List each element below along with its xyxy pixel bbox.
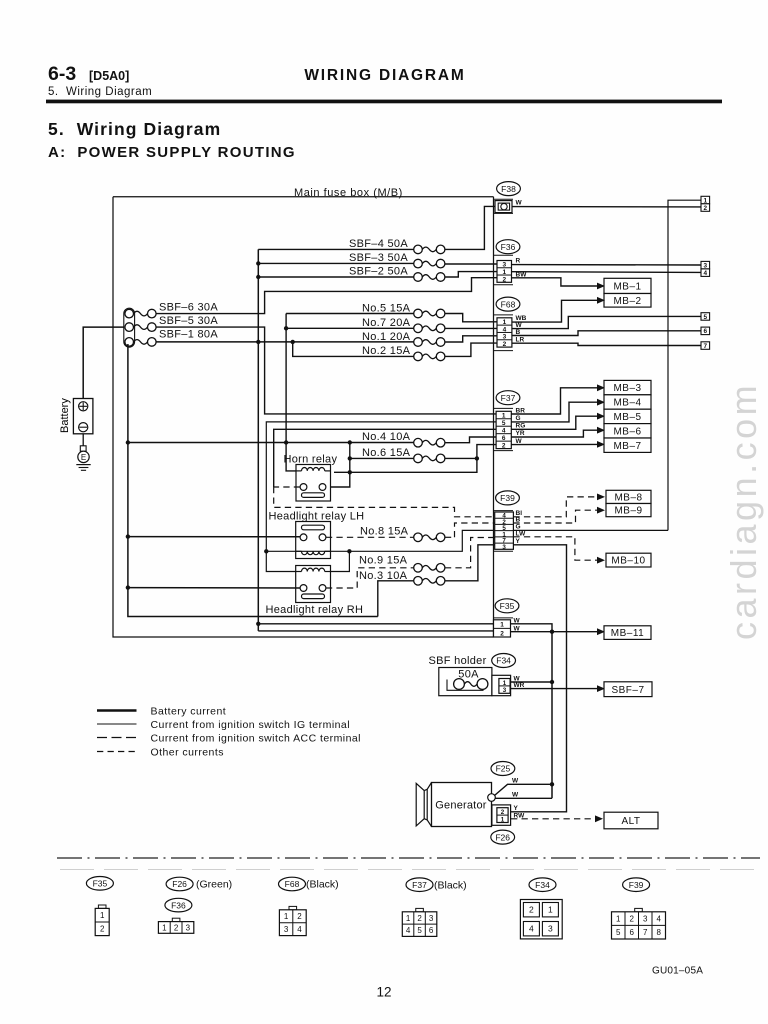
terminal 2 [701,204,710,212]
svg-text:No.9 15A: No.9 15A [359,555,408,567]
svg-text:F36: F36 [171,900,186,910]
svg-text:1: 1 [548,905,553,915]
svg-text:R: R [516,257,521,264]
svg-text:W: W [516,200,523,207]
box MB-3 [604,380,651,394]
connector F39 [496,491,520,505]
wire F38 W to terminal 2 [512,206,701,208]
svg-text:8: 8 [657,928,662,937]
svg-text:A: POWER SUPPLY ROUTING: A: POWER SUPPLY ROUTING [48,144,296,161]
svg-text:1: 1 [616,915,621,924]
fuse No.6 15A [414,454,423,463]
headlight relay LH coil [302,551,325,554]
svg-text:B: B [516,516,521,523]
connector F68 [496,297,520,311]
legend IG terminal current [97,723,137,725]
svg-text:W: W [514,618,521,625]
svg-text:F35: F35 [93,879,108,889]
svg-text:2: 2 [704,205,708,212]
svg-text:4: 4 [406,926,411,935]
svg-text:7: 7 [643,928,648,937]
wire bus A to F35 pin1 [258,623,496,625]
wire SBF-3 row to F36 pin3 [258,262,413,264]
pinout F68 (Black) [279,877,306,891]
svg-text:MB–10: MB–10 [611,556,645,567]
svg-text:F39: F39 [500,493,515,503]
main fuse box outline [113,196,494,198]
wire bus A to F35 pin2 [258,630,496,632]
svg-text:12: 12 [376,985,391,1000]
svg-text:3: 3 [503,334,507,341]
svg-text:G: G [516,415,521,422]
box MB-2 [604,294,651,308]
svg-text:W: W [514,625,521,632]
wire No.6 output down to horn coil lead [334,458,477,472]
svg-text:Headlight relay RH: Headlight relay RH [266,604,364,616]
svg-text:4: 4 [704,270,708,277]
horn relay contact terminals [300,484,307,491]
svg-text:3: 3 [186,923,191,932]
svg-text:SBF–2 50A: SBF–2 50A [349,265,408,277]
svg-text:W: W [516,438,523,445]
svg-text:3: 3 [429,914,434,923]
generator pulley [416,783,424,826]
svg-text:6: 6 [704,328,708,335]
horn relay U-box [296,465,331,502]
horn relay coil [302,467,325,470]
svg-text:(Green): (Green) [196,879,232,891]
svg-text:[D5A0]: [D5A0] [89,69,129,83]
svg-text:B: B [516,329,521,336]
wire SBF holder W to battery riser [511,681,552,683]
svg-text:3: 3 [502,544,506,551]
svg-text:5: 5 [704,314,708,321]
wire No.3 output to F39 pin3 [445,545,495,581]
svg-text:LW: LW [516,530,527,537]
svg-text:MB–11: MB–11 [611,628,644,639]
ground E from battery minus [82,434,84,446]
pinout F39 [623,878,650,892]
wire No.2 output to F68 pin2 [445,343,497,356]
wire No.7 feed [286,327,414,329]
svg-text:No.6 15A: No.6 15A [362,447,411,459]
header rule [46,100,722,104]
generator box [432,783,492,827]
junction holder W to riser [550,680,554,684]
wire F68 pin3 B to terminal 6 [512,331,701,336]
F34 connector [492,675,511,695]
junction No.6 output [475,456,479,460]
box ALT [604,812,658,829]
fuse SBF 50A [454,679,465,690]
wire No.5 feed from vertical C [286,313,414,315]
fuse No.8 15A [414,533,423,542]
wire horn relay branch vertical x=349.8 [326,443,350,488]
svg-text:F26: F26 [172,879,187,889]
pinout F36 [165,898,192,912]
svg-text:WR: WR [514,682,525,689]
svg-text:(Black): (Black) [306,879,339,891]
svg-text:2: 2 [417,914,422,923]
wire F37 pin6 YR to MB-6 [511,430,597,437]
wire battery riser to generator [551,632,553,799]
connector F34 oval [492,654,516,668]
wire SBF-5 output down to F37 pin1 [156,327,496,414]
svg-text:F39: F39 [629,880,644,890]
svg-text:No.3 10A: No.3 10A [359,570,408,582]
svg-text:YR: YR [516,430,525,437]
box MB-1 [604,278,651,293]
svg-text:6: 6 [502,435,506,442]
svg-text:2: 2 [630,915,635,924]
junction battery bus to headlight relay RH contact [126,585,130,589]
svg-text:3: 3 [284,925,289,934]
svg-text:1: 1 [503,319,507,326]
svg-text:F68: F68 [501,299,516,309]
fuse No.5 15A [414,309,423,318]
wire F35 pin2 W to MB-11 [511,631,598,633]
page break dash-dot line [57,857,760,859]
svg-text:2: 2 [174,923,179,932]
connector F25 oval [491,762,515,776]
wire battery bus vertical x=128 [128,344,378,617]
junction F35 wires [550,630,554,634]
wire IG riser to terminal 1 [668,200,701,530]
svg-text:1: 1 [406,914,411,923]
wire No.4/No.6 feed bus y=442.5 [128,442,414,444]
svg-text:4: 4 [657,915,662,924]
fuse No.7 20A [414,324,423,333]
wire vertical C No.5/No.7 feed down to horn relay coil [286,314,296,471]
fuse No.1 20A [414,338,423,347]
svg-text:5: 5 [502,420,506,427]
wire F37 pin2 W to MB-7 [511,443,597,445]
fuse SBF-5 30A [125,323,134,332]
junction C at No.4 bus [284,440,288,444]
svg-text:F68: F68 [285,879,300,889]
svg-text:(Black): (Black) [434,879,467,891]
box SBF-7 [604,682,652,697]
box MB-10 [606,553,651,567]
svg-text:1: 1 [503,680,507,687]
svg-text:MB–6: MB–6 [613,426,641,437]
svg-text:MB–9: MB–9 [614,506,642,517]
svg-text:2: 2 [502,442,506,449]
svg-text:Battery: Battery [59,398,71,433]
svg-text:W: W [512,791,519,798]
svg-text:Other currents: Other currents [151,747,224,759]
wire F39 Y down to generator F26 [508,545,567,812]
wire coil net to F39 pin5 (G) [296,530,495,551]
svg-text:SBF–5 30A: SBF–5 30A [159,315,218,327]
headlight relay RH contact terminals [300,585,307,592]
wire battery bus to LH contact [128,536,300,538]
wire F68 pin1 WB to MB-2 [512,300,597,322]
svg-text:F38: F38 [501,184,516,194]
junction SBF-1 to No.2 branch [291,340,295,344]
wire G-net vertical x=266.3 (F37 pin5 to coils) [266,422,496,572]
svg-text:No.1 20A: No.1 20A [362,331,411,343]
svg-text:RW: RW [514,813,526,820]
wire SBF holder WR to SBF-7 [511,688,597,690]
svg-text:2: 2 [503,341,507,348]
wire No.4 output to F37 pin6 [445,437,496,443]
svg-text:cardiagn.com: cardiagn.com [723,382,764,640]
legend battery current [97,709,137,712]
wire No.1 output to F68 pin3 [445,336,497,342]
svg-text:F37: F37 [501,393,516,403]
svg-text:F35: F35 [500,601,515,611]
dashed wire F39 LW to MB-10 [513,537,597,560]
svg-text:1: 1 [501,816,505,823]
svg-text:3: 3 [502,262,506,269]
svg-text:5: 5 [417,926,422,935]
svg-text:LR: LR [516,337,525,344]
svg-text:2: 2 [529,905,534,915]
junction bus A to SBF-2 feed [256,275,260,279]
wire F68 pin2 LR to terminal 7 [512,343,701,345]
fuse No.3 10A [414,577,423,586]
wire SBF output bus x=258.3 [257,249,259,631]
svg-text:2: 2 [502,276,506,283]
svg-text:Horn relay: Horn relay [284,454,338,466]
svg-text:2: 2 [100,925,105,934]
wire F36 pin3 R to terminal 3 [512,264,702,266]
wire SBF-2 row to F36 pin1 [258,276,413,278]
headlight relay RH coil [302,568,325,571]
connector F38 [497,182,521,196]
dashed wire No.9 output to F39 pin7 [445,538,495,568]
wire F37 pin4 RG to horn relay contact [274,429,496,487]
wire F39 G to IG riser [513,529,668,531]
svg-text:SBF–1 80A: SBF–1 80A [159,328,218,340]
svg-text:No.7 20A: No.7 20A [362,317,411,329]
junction bus A to F35 pin1 [256,622,260,626]
svg-text:1: 1 [502,269,506,276]
SBF holder fuse bracket [447,680,483,691]
fuse SBF-4 50A [414,245,423,254]
svg-text:GU01–05A: GU01–05A [652,966,703,977]
SBF holder box [439,668,492,696]
svg-text:1: 1 [500,622,504,629]
legend other currents [97,751,137,753]
svg-text:4: 4 [297,925,302,934]
fuse No.2 15A [414,352,423,361]
svg-text:MB–1: MB–1 [613,282,641,293]
svg-text:MB–2: MB–2 [613,296,641,307]
terminal 7 [701,342,710,350]
box MB-7 [604,438,651,452]
connector F26 oval [491,830,515,844]
svg-text:5. Wiring Diagram: 5. Wiring Diagram [48,119,221,139]
svg-text:1: 1 [162,923,167,932]
junction bus to horn relay branch [348,440,352,444]
terminal 3 [701,261,710,269]
svg-text:F36: F36 [501,242,516,252]
svg-text:3: 3 [643,915,648,924]
wire No.5 output to F68 pin1 [445,314,497,322]
svg-text:MB–5: MB–5 [613,412,641,423]
svg-text:No.4 10A: No.4 10A [362,431,411,443]
box MB-11 [604,626,651,640]
dashed wire F39 B to MB-9 [513,510,597,523]
wire generator W upper [495,784,552,795]
svg-text:MB–8: MB–8 [614,493,642,504]
wire F37 pin5 G to MB-4 [511,402,597,422]
svg-text:BR: BR [516,407,526,414]
svg-text:F25: F25 [496,764,511,774]
svg-text:1: 1 [284,912,289,921]
pinout F37 (Black) [406,878,433,892]
wire battery to fuse No.3 [378,581,414,617]
wire No.7 output to F68 pin4 [445,327,497,329]
fuse No.4 10A [414,438,423,447]
svg-text:F34: F34 [496,656,511,666]
headlight relay LH contact bar [302,525,325,530]
pinout F34 [529,878,556,892]
headlight relay LH box [296,522,331,559]
wire battery plus to fuse bank [83,327,124,398]
box MB-4 [604,395,651,409]
svg-text:5. Wiring Diagram: 5. Wiring Diagram [48,86,152,98]
terminal 4 [701,269,710,277]
horn relay contact bar [302,493,325,498]
pinout F26 (Green) [166,877,193,891]
connector F36 [496,240,520,254]
svg-text:No.2 15A: No.2 15A [362,345,411,357]
wire generator W lower [495,797,552,799]
svg-text:SBF–3 50A: SBF–3 50A [349,252,408,264]
svg-text:1: 1 [100,911,105,920]
connector F35 [495,599,519,613]
svg-text:3: 3 [548,924,553,934]
junction coil net to RH coil [347,549,351,553]
fuse No.9 15A [414,564,423,573]
wire F37 pin4 RG to MB-5 [511,416,597,429]
fuse SBF-6 30A [125,309,134,318]
junction bus A to SBF-3 feed [256,261,260,265]
wire F37 pin1 BR to MB-3 [511,388,597,414]
junction SBF-1 and bus A [256,340,260,344]
svg-text:No.8 15A: No.8 15A [360,526,409,538]
junction branch to No.6 feed [348,456,352,460]
dashed wire No.8 output to F39 pin2 [445,536,455,538]
svg-text:Y: Y [516,538,521,545]
wire battery bus to RH contact [128,587,300,589]
fuse SBF-2 50A [414,273,423,282]
wire F36 pin1 to terminal 4 [512,271,702,274]
svg-text:RG: RG [516,423,526,430]
svg-text:F34: F34 [535,880,550,890]
headlight relay LH contact terminals [300,534,307,541]
svg-text:W: W [512,777,519,784]
box MB-8 [606,490,651,503]
svg-text:MB–4: MB–4 [613,398,641,409]
svg-text:SBF–4 50A: SBF–4 50A [349,238,408,250]
wire RH coil right lead [331,551,350,571]
dashed wire F26 RW to ALT [511,818,595,820]
svg-text:4: 4 [503,326,507,333]
junction coil lead wire [348,470,352,474]
svg-text:6-3: 6-3 [48,63,76,85]
box MB-5 [604,409,651,423]
svg-text:Current from ignition switch I: Current from ignition switch IG terminal [151,719,350,731]
svg-text:Current from ignition switch A: Current from ignition switch ACC termina… [151,733,361,745]
dashed wire LH contact to fuse No.8 [326,536,414,538]
svg-text:SBF–7: SBF–7 [611,685,644,696]
terminal 5 [701,313,710,321]
svg-text:No.5 15A: No.5 15A [362,303,411,315]
svg-text:7: 7 [704,343,708,350]
svg-text:6: 6 [429,926,434,935]
svg-text:ALT: ALT [621,816,640,827]
svg-text:F37: F37 [412,880,427,890]
svg-text:2: 2 [501,809,505,816]
junction riser to generator [550,782,554,786]
svg-text:3: 3 [503,687,507,694]
svg-text:4: 4 [529,924,534,934]
wire No.6 feed [350,457,414,459]
wire No.6 output to F37 pin2 [445,445,496,459]
wire SBF-1 output to fuse No.1 [156,341,414,343]
connector F37 [496,391,520,405]
svg-text:Y: Y [514,805,519,812]
headlight relay RH box [296,566,331,603]
svg-text:MB–7: MB–7 [613,441,641,452]
fuse SBF-1 80A [125,338,134,347]
svg-text:1: 1 [502,413,506,420]
svg-text:SBF–6 30A: SBF–6 30A [159,302,218,314]
SBF fuse bank housing [124,308,135,347]
F26 connector [492,805,511,825]
battery [73,399,93,434]
junction battery bus to headlight relay LH contact [126,534,130,538]
wire F36 pin2 BW to MB-1 [512,278,598,286]
svg-text:WIRING DIAGRAM: WIRING DIAGRAM [304,67,465,84]
wire SBF-6 output to F36 pin2 via MB-1 path [156,278,497,314]
svg-text:2: 2 [297,912,302,921]
dashed wire F39 Bl to MB-8 [513,497,597,517]
svg-text:Generator: Generator [435,799,486,811]
svg-text:Main fuse box (M/B): Main fuse box (M/B) [294,187,403,199]
fuse SBF-3 50A [414,259,423,268]
legend ACC terminal current [97,737,137,739]
svg-text:F26: F26 [495,832,510,842]
pinout F35 [86,877,113,891]
dashed wire horn relay contact to F39 pin4 (other current) [274,486,300,488]
svg-text:2: 2 [500,630,504,637]
wire bus A to SBF-4 fuse, output up to F38 [258,248,413,250]
junction battery bus to No.4/No.6 feed [126,440,130,444]
box MB-9 [606,504,651,517]
svg-text:WB: WB [516,315,527,322]
svg-text:Headlight relay LH: Headlight relay LH [269,511,365,523]
svg-text:W: W [516,322,523,329]
terminal 6 [701,327,710,335]
svg-text:Battery current: Battery current [151,706,227,718]
svg-text:MB–3: MB–3 [613,383,641,394]
headlight relay RH contact bar [302,594,325,599]
terminal 1 [701,196,710,204]
svg-text:5: 5 [616,928,621,937]
box MB-6 [604,424,651,438]
svg-text:E: E [81,453,86,462]
svg-text:SBF holder: SBF holder [429,655,487,667]
svg-text:BW: BW [516,271,528,278]
wire F35 pin1 W down to junction [511,624,553,632]
svg-text:6: 6 [630,928,635,937]
wire branch to fuse No.2 [293,342,414,357]
